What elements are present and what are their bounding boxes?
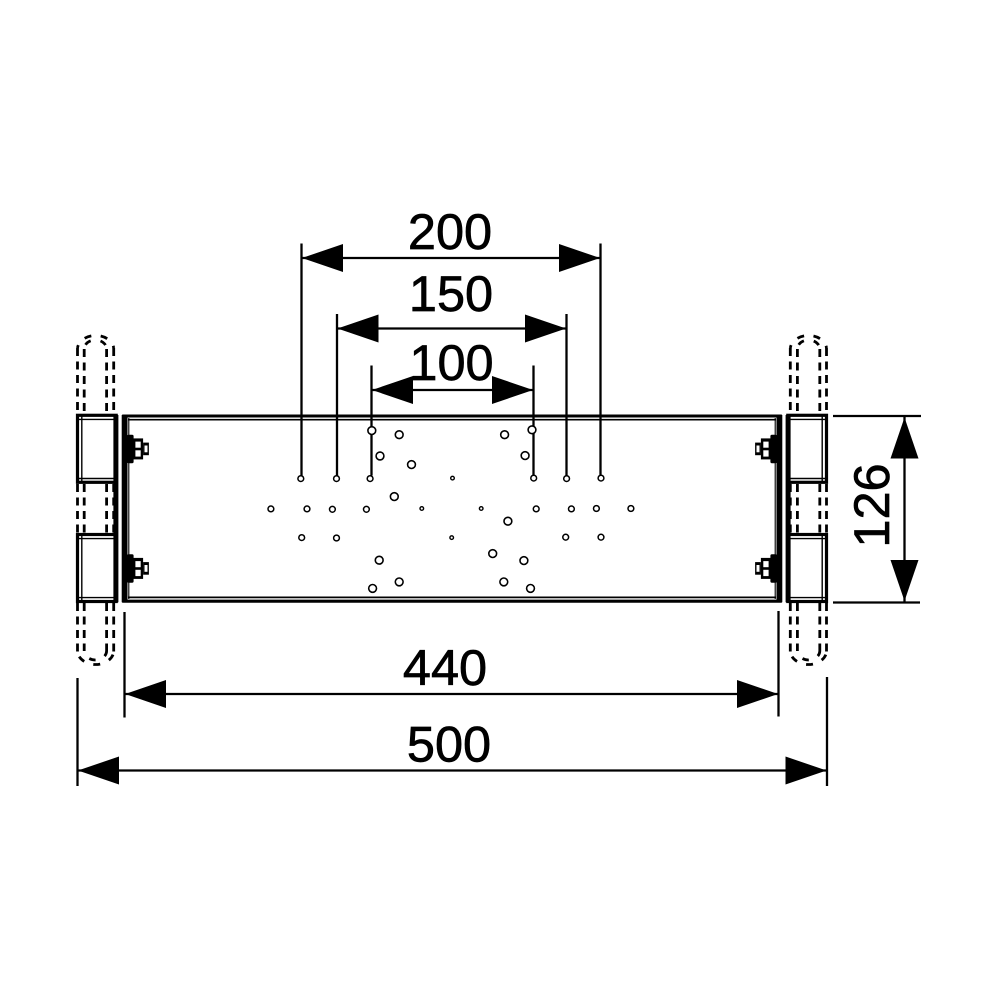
left pipe hidden lines below plate (78, 603, 114, 665)
right clamp back plate (786, 415, 791, 602)
plate right edge fold (775, 415, 779, 602)
left upper clamp (78, 415, 117, 482)
right lower clamp (788, 535, 827, 602)
dimension 200 (302, 244, 601, 476)
dimension 500 (78, 677, 828, 786)
hole pattern: tiny holes (420, 476, 483, 539)
left pipe hidden lines above plate (78, 335, 114, 414)
dimension 150 (337, 314, 567, 476)
bolt lower left (127, 554, 149, 583)
left pipe hidden lines between clamps (78, 484, 114, 533)
right pipe hidden lines between clamps (790, 484, 826, 533)
svg-text:200: 200 (408, 203, 492, 260)
svg-text:100: 100 (409, 334, 493, 391)
dimension 126 (833, 416, 921, 603)
left lower clamp (78, 535, 117, 602)
plate left edge fold (125, 415, 129, 602)
left clamp back plate (113, 415, 118, 602)
hole pattern: medium holes (368, 426, 536, 592)
right pipe hidden lines above plate (790, 335, 826, 414)
dimension 100 (372, 366, 534, 476)
right upper clamp (788, 415, 827, 482)
svg-text:440: 440 (403, 639, 487, 696)
svg-text:500: 500 (407, 716, 491, 773)
dimension 440 (125, 611, 779, 718)
right pipe hidden lines below plate (790, 603, 826, 665)
bolt upper right (755, 435, 777, 464)
hole pattern: small holes (268, 475, 634, 541)
bolt lower right (755, 554, 777, 583)
mounting plate outline (122, 416, 782, 601)
svg-text:126: 126 (843, 463, 900, 547)
bolt upper left (127, 435, 149, 464)
svg-text:150: 150 (409, 265, 493, 322)
